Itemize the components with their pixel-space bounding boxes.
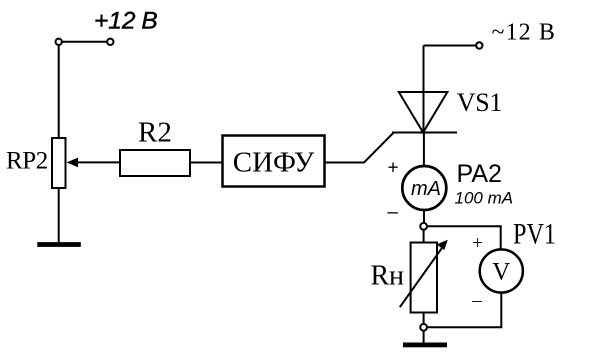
svg-text:+: + [387,158,398,179]
wire PV1 top vertical [500,226,502,250]
svg-text:–: – [387,202,398,223]
ground (left) [37,242,81,247]
svg-text:+12 В: +12 В [94,8,158,35]
label Rn [371,261,405,292]
milliammeter PA2 body [402,166,446,210]
svg-text:–: – [471,290,482,311]
wire bottom horizontal to node B [427,326,502,328]
svg-text:mA: mA [411,178,441,200]
node B (bottom junction) [420,324,427,331]
svg-text:СИФУ: СИФУ [233,147,315,179]
wire Rn bottom to node B [423,313,425,325]
wire cathode to PA2 [423,133,425,167]
svg-text:R: R [371,261,390,292]
wire between +12V terminals [63,41,107,43]
wire R2 to SIFU [190,162,222,164]
svg-text:н: н [389,261,404,292]
wire gate/cathode bar [392,132,457,134]
node A (top junction) [420,223,427,230]
terminal X3 (~12V) [476,42,482,48]
wire SIFU output [325,162,364,164]
wire PA2 to node A [423,210,425,223]
terminal X2 (+12V right) [107,39,113,45]
wire terminal to RP2 top [58,45,60,139]
svg-text:+: + [472,233,483,254]
potentiometer RP2 body [52,138,66,188]
wire node A to Rn [423,230,425,243]
load resistor Rn body [411,243,437,313]
resistor R2 body [120,150,190,176]
wire gate diagonal [363,133,393,164]
Rn adjustment arrow [400,240,448,307]
svg-text:PA2: PA2 [457,160,502,188]
svg-text:VS1: VS1 [457,88,502,117]
wire PV1 bottom vertical [500,293,502,328]
wire top right horizontal [424,45,477,47]
ground (right) [403,343,447,348]
terminal X1 (+12V left) [56,39,62,45]
RP2 wiper arrow [67,158,121,168]
wire node A to PV1 [427,225,502,227]
svg-text:RP2: RP2 [6,148,48,175]
svg-text:R2: R2 [138,117,172,149]
thyristor VS1 triangle [399,92,448,133]
block U1 SIFU [223,136,325,187]
svg-text:V: V [492,259,510,286]
svg-text:~12 В: ~12 В [492,20,557,46]
wire node B to ground [423,331,425,343]
voltmeter PV1 body [480,249,523,292]
wire anode (through triangle) [423,46,425,133]
wire RP2 bottom to ground [58,188,60,243]
svg-text:100 mA: 100 mA [455,189,514,208]
svg-text:PV1: PV1 [513,219,556,251]
